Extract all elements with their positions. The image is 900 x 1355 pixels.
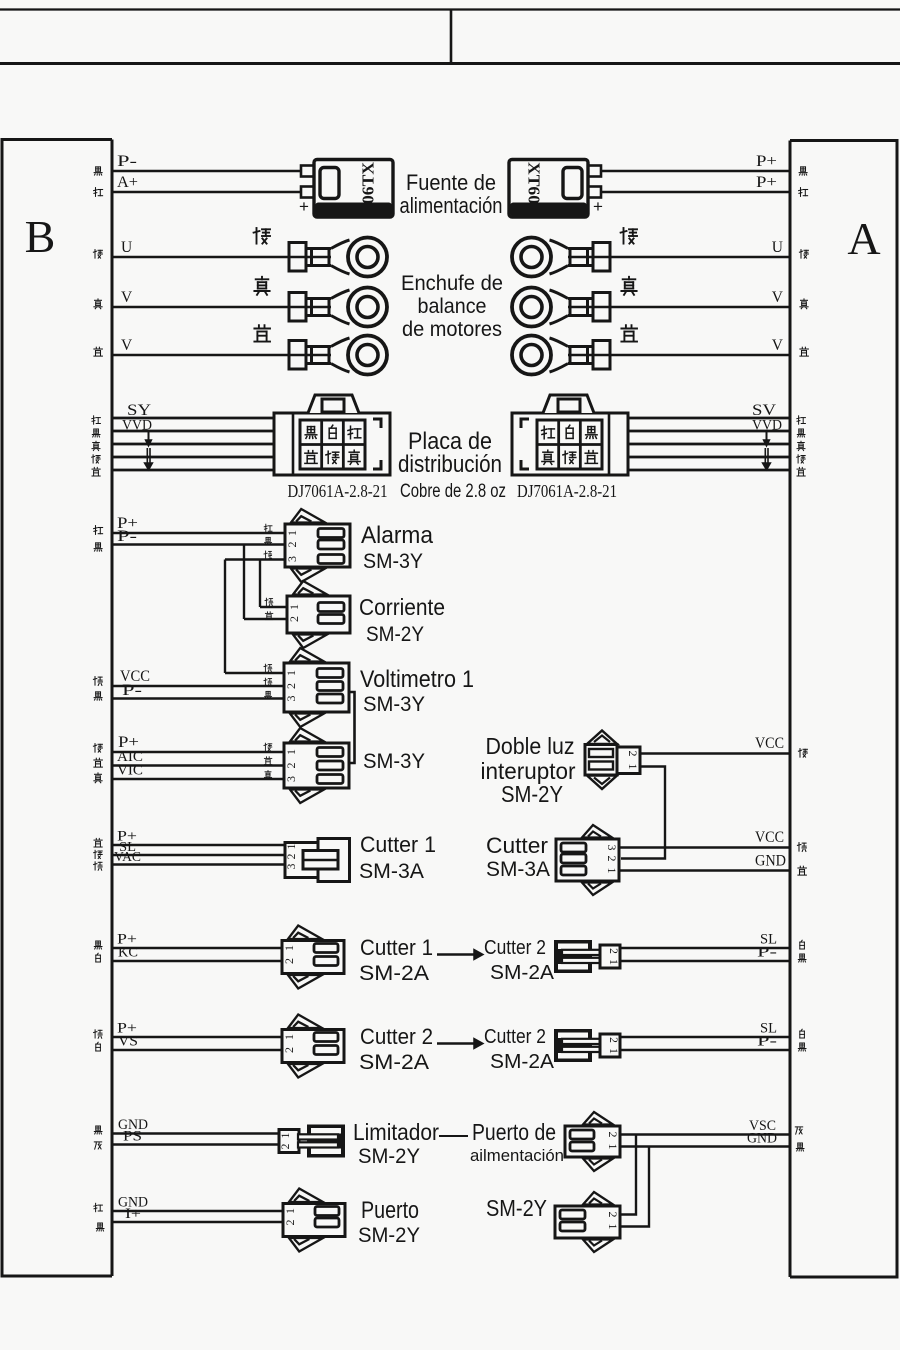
svg-text:SM-2Y: SM-2Y <box>486 1195 547 1221</box>
connector shell <box>554 940 592 973</box>
wire GND B to Limitador pin1 <box>112 1132 279 1134</box>
wire color column (B edge) <box>92 416 101 424</box>
ring terminal ring hole <box>357 297 378 318</box>
svg-text:Alarma: Alarma <box>361 522 434 549</box>
ring terminal ring hole <box>521 297 542 318</box>
svg-text:P-: P- <box>117 528 137 545</box>
svg-text:Cutter: Cutter <box>486 833 548 858</box>
wire P- to A <box>620 960 790 962</box>
svg-text:PS: PS <box>123 1129 142 1145</box>
connector tongue (Cutter1 SM-3A) <box>303 851 338 870</box>
title block divider vertical <box>450 10 453 64</box>
ring terminal neck <box>568 297 593 300</box>
svg-text:3: 3 <box>284 696 298 702</box>
ring terminal wire seam <box>289 306 331 308</box>
wire color label black (B side) <box>94 167 102 175</box>
wire color labels at Corriente pins <box>265 598 273 606</box>
svg-text:GND: GND <box>755 853 786 870</box>
XT60 connector body <box>509 160 588 218</box>
pin slots <box>570 1130 594 1139</box>
svg-text:1: 1 <box>607 959 619 965</box>
harness board A box <box>790 141 897 1278</box>
wire GND Puerto to A <box>620 1145 790 1147</box>
ring terminal wire seam <box>568 256 610 258</box>
svg-text:SM-2A: SM-2A <box>490 962 555 984</box>
harness board B box <box>2 140 112 1277</box>
wire color label orange (B edge) <box>93 677 102 686</box>
svg-text:2: 2 <box>286 853 298 859</box>
wire color labels (A edge) <box>800 1029 805 1038</box>
wire color label black (A edge) <box>796 1143 804 1151</box>
svg-text:3: 3 <box>605 845 619 851</box>
wire V motor phase (A side) <box>610 354 790 356</box>
svg-text:VVD: VVD <box>122 418 152 434</box>
svg-text:SM-3Y: SM-3Y <box>363 693 425 716</box>
connector body <box>284 743 349 788</box>
svg-text:SM-3Y: SM-3Y <box>363 750 425 773</box>
wire A+ (red) B to XT60-B <box>112 191 302 193</box>
ring terminal ring <box>512 336 551 375</box>
svg-text:1: 1 <box>605 868 619 874</box>
connector body <box>282 1030 344 1063</box>
svg-text:Cobre de 2.8 oz: Cobre de 2.8 oz <box>400 481 506 502</box>
wire color label green (A edge) <box>798 749 807 758</box>
pin slots <box>314 944 338 953</box>
svg-text:2: 2 <box>284 763 298 769</box>
connector latch wing top <box>288 1015 322 1029</box>
wire VS B to Cutter 2 pin2 <box>112 1049 282 1051</box>
pin number box <box>600 1034 620 1057</box>
ring terminal neck <box>568 247 593 250</box>
wire color label (B edge) <box>93 250 102 259</box>
wire net arrow 2 (B side) <box>146 448 148 464</box>
connector latch wing top <box>290 648 324 662</box>
wire color label red (A side) <box>799 188 808 197</box>
wire color label red (B side) <box>94 188 103 197</box>
svg-text:ailmentación: ailmentación <box>470 1146 564 1165</box>
connector latch wing bottom <box>293 635 327 649</box>
ring terminal ring <box>348 288 387 327</box>
svg-text:1: 1 <box>606 1144 620 1150</box>
pin slots <box>317 748 343 757</box>
wire color column (A edge) <box>797 416 806 424</box>
svg-text:2: 2 <box>607 948 619 954</box>
ring terminal neck <box>306 297 331 300</box>
wire color labels (B edge) <box>94 941 102 949</box>
connector latch wing bottom <box>288 975 322 989</box>
wire color label black (B edge) <box>94 692 102 700</box>
connector latch wing bottom <box>583 1159 613 1172</box>
pin slots <box>315 1207 339 1216</box>
svg-text:B: B <box>25 211 56 262</box>
wire V motor phase (B side) <box>112 306 289 308</box>
svg-text:A: A <box>847 213 880 264</box>
wire color label black (B edge) <box>94 543 102 551</box>
distribution connector lock bracket <box>521 419 529 469</box>
connector latch wing bottom <box>291 569 325 583</box>
svg-text:1: 1 <box>287 604 301 610</box>
distribution connector DJ7061A body <box>274 413 390 475</box>
wire net arrow 1 (A side) <box>766 432 768 441</box>
connector latch wing bottom <box>290 790 324 804</box>
pin blades <box>562 1039 604 1044</box>
ring terminal ring <box>512 238 551 277</box>
connector latch wing top <box>289 1189 323 1203</box>
svg-text:1: 1 <box>285 530 299 536</box>
svg-text:VCC: VCC <box>755 735 784 752</box>
pin slots <box>318 529 344 538</box>
connector latch wing bottom <box>583 1240 613 1253</box>
XT60 black base band <box>315 203 392 217</box>
distribution connector DJ7061A body <box>512 413 628 475</box>
ring terminal crimp barrel <box>289 243 306 272</box>
distribution connector 2x3 terminal grid <box>300 420 365 469</box>
ring terminal wire seam <box>289 354 331 356</box>
wire VCC Doble luz to A <box>640 752 790 754</box>
svg-text:P+: P+ <box>756 174 777 191</box>
ring terminal ring hole <box>521 345 542 366</box>
connector shell <box>307 1125 345 1158</box>
connector body <box>285 524 350 567</box>
wire PS B to Limitador pin2 <box>112 1143 279 1145</box>
svg-text:Enchufe de: Enchufe de <box>401 272 503 295</box>
wire bundle B to distribution connector (5 wires) <box>112 417 274 420</box>
svg-text:1: 1 <box>282 1034 296 1040</box>
title block bottom border line <box>0 62 900 65</box>
pin number box <box>279 1130 299 1153</box>
wire color labels (B edge) <box>94 1030 103 1038</box>
connector latch wing top <box>582 825 612 838</box>
svg-text:SM-3A: SM-3A <box>486 858 550 881</box>
Alarma pin3 stub wire <box>225 558 285 560</box>
ring terminal neck <box>568 345 593 348</box>
wire color labels at Alarma pins <box>264 524 272 532</box>
svg-text:3: 3 <box>285 556 299 562</box>
wire color label green (B edge) <box>93 744 102 753</box>
XT60 terminal pins <box>301 166 314 177</box>
svg-text:P-: P- <box>117 153 137 170</box>
wire color label (B edge) <box>94 299 102 309</box>
connector shell <box>554 1029 592 1062</box>
distribution connector lock bracket <box>373 419 381 469</box>
pin slots <box>318 603 344 612</box>
svg-text:P-: P- <box>757 945 777 961</box>
ring terminal ring hole <box>521 247 542 268</box>
svg-text:3: 3 <box>286 863 298 869</box>
svg-text:SV: SV <box>752 402 777 419</box>
svg-text:1: 1 <box>606 1224 620 1230</box>
wire P- B to Voltimetro pin3 <box>112 697 284 699</box>
ring terminal ring hole <box>357 247 378 268</box>
svg-text:2: 2 <box>283 1220 297 1226</box>
svg-text:V: V <box>121 337 133 354</box>
svg-text:2: 2 <box>280 1143 292 1149</box>
pin slots <box>560 1210 585 1219</box>
svg-text:SM-2Y: SM-2Y <box>501 781 563 807</box>
wire U motor phase (B side) <box>112 256 289 258</box>
svg-text:Cutter 2: Cutter 2 <box>484 1026 546 1048</box>
ring terminal wire seam <box>568 306 610 308</box>
wire P- to A <box>620 1049 790 1051</box>
wire SL B to Cutter1 pin2 <box>112 854 288 856</box>
pin slots <box>317 669 343 678</box>
wire color label gray (A edge) <box>795 1127 802 1134</box>
svg-text:Corriente: Corriente <box>359 594 445 620</box>
svg-text:SM-3A: SM-3A <box>359 860 424 883</box>
link line Limitador to Puerto <box>439 1135 468 1137</box>
terminal color labels <box>542 426 555 439</box>
wire color label orange (A edge) <box>797 843 806 852</box>
junction bus vertical pin3 to Corriente pin1 <box>259 560 261 608</box>
ring terminal ring <box>348 336 387 375</box>
svg-text:Puerto: Puerto <box>361 1197 419 1224</box>
connector body <box>284 663 349 712</box>
wire SL to A <box>620 947 790 949</box>
svg-text:P-: P- <box>122 682 142 699</box>
svg-text:SM-2A: SM-2A <box>359 962 429 985</box>
wire P+ (black) XT60-A to A <box>601 170 790 172</box>
distribution connector top latch <box>543 395 594 413</box>
svg-text:P+: P+ <box>756 153 777 170</box>
svg-text:SM-2A: SM-2A <box>490 1051 555 1073</box>
wire I+ B to Puerto pin2 <box>112 1221 283 1223</box>
connector Cutter 1 SM-3A female <box>318 839 350 882</box>
ring terminal crimp barrel <box>289 293 306 322</box>
svg-text:Cutter 2: Cutter 2 <box>360 1024 433 1049</box>
wire color label (large, B side) <box>254 277 269 295</box>
title block top border line <box>0 8 900 10</box>
svg-text:SM-2Y: SM-2Y <box>366 623 424 646</box>
wire color label yellow (B edge) <box>94 773 102 783</box>
wire color label green (B edge) <box>94 850 103 858</box>
XT60 terminal pins <box>588 166 601 177</box>
svg-text:Limitador: Limitador <box>353 1119 439 1145</box>
wire color label red (B edge) <box>94 526 103 535</box>
connector latch wing bottom <box>289 1238 323 1252</box>
connector Doble luz SM-2Y male <box>587 731 617 745</box>
svg-text:1: 1 <box>284 670 298 676</box>
svg-text:V: V <box>772 337 784 354</box>
svg-text:VCC: VCC <box>755 829 784 846</box>
svg-text:3: 3 <box>284 776 298 782</box>
wire P+ B to SM-3Y pin1 <box>112 751 284 753</box>
wire color label black (A side) <box>799 167 807 175</box>
XT60 pin cavity <box>320 168 339 199</box>
ring terminal crimp barrel <box>593 243 610 272</box>
svg-text:+: + <box>299 197 309 216</box>
wire color label (B edge) <box>94 347 103 356</box>
svg-text:+: + <box>593 197 603 216</box>
svg-text:Fuente de: Fuente de <box>406 170 496 195</box>
wire V motor phase (B side) <box>112 354 289 356</box>
ring terminal neck <box>306 345 331 348</box>
wire color label (large, A side) <box>621 228 637 244</box>
svg-text:DJ7061A-2.8-21: DJ7061A-2.8-21 <box>517 481 617 501</box>
ring terminal wire seam <box>568 354 610 356</box>
svg-text:Voltimetro 1: Voltimetro 1 <box>360 666 474 693</box>
svg-text:2: 2 <box>287 616 301 622</box>
connector latch wing bottom <box>290 714 324 728</box>
wire P+ B to Cutter 2 pin1 <box>112 1036 282 1038</box>
svg-text:2: 2 <box>606 1212 620 1218</box>
svg-text:2: 2 <box>626 751 640 757</box>
wire color label (large, A side) <box>621 277 636 295</box>
svg-text:Cutter 1: Cutter 1 <box>360 935 433 960</box>
wire U motor phase (A side) <box>610 256 790 258</box>
svg-text:DJ7061A-2.8-21: DJ7061A-2.8-21 <box>288 481 388 501</box>
svg-text:de motores: de motores <box>402 318 502 341</box>
wire VIC B to SM-3Y pin3 <box>112 778 284 780</box>
svg-text:1: 1 <box>280 1132 292 1138</box>
svg-text:XT60: XT60 <box>525 162 544 204</box>
ring terminal wire seam <box>289 256 331 258</box>
svg-text:1: 1 <box>626 764 640 770</box>
svg-text:1: 1 <box>282 945 296 951</box>
wire V motor phase (A side) <box>610 306 790 308</box>
svg-text:VAC: VAC <box>114 849 141 864</box>
wire color label red (B edge) <box>94 1203 103 1211</box>
svg-text:distribución: distribución <box>398 451 502 478</box>
connector latch wing top <box>583 1192 613 1205</box>
svg-text:2: 2 <box>284 683 298 689</box>
wire net arrow 2 (A side) <box>764 448 766 464</box>
wire P- B to Alarma pin2 <box>112 543 285 545</box>
wire SL to A <box>620 1036 790 1038</box>
wire color label gray (B edge) <box>94 1142 101 1149</box>
ring terminal neck <box>306 247 331 250</box>
wire AIC B to SM-3Y pin2 <box>112 764 284 766</box>
connector body <box>282 941 344 974</box>
svg-text:2: 2 <box>282 1047 296 1053</box>
ring terminal crimp barrel <box>593 341 610 370</box>
wire VAC B to Cutter1 pin3 <box>112 863 288 865</box>
ring terminal crimp barrel <box>289 341 306 370</box>
wire P+ B to Cutter1 pin1 <box>112 844 288 846</box>
wire VSC Puerto to A <box>620 1133 790 1135</box>
wire color label blue (A edge) <box>798 866 807 875</box>
connector body <box>556 839 619 881</box>
svg-text:VS: VS <box>118 1034 138 1050</box>
wire color label (A edge) <box>799 250 808 259</box>
wire color labels (A edge) <box>800 940 805 949</box>
XT60 black base band <box>510 203 587 217</box>
svg-text:Cutter 1: Cutter 1 <box>360 832 436 857</box>
wire bundle distribution connector to A (5 wires) <box>628 417 790 420</box>
wire KC B to Cutter 1 pin2 <box>112 960 282 962</box>
svg-text:Cutter 2: Cutter 2 <box>484 937 546 959</box>
svg-text:SM-2Y: SM-2Y <box>358 1145 420 1168</box>
wire VCC B to Voltimetro pin2 <box>112 685 284 687</box>
svg-text:SM-3Y: SM-3Y <box>363 550 423 573</box>
svg-text:1: 1 <box>283 1208 297 1214</box>
XT60 pin cavity <box>563 168 582 199</box>
svg-text:SY: SY <box>127 402 152 419</box>
svg-text:2: 2 <box>605 856 619 862</box>
branch vertical Puerto pin1 to SM-2Y pin1 <box>620 1147 649 1227</box>
svg-text:VIC: VIC <box>117 763 143 779</box>
signal flow arrow <box>437 1042 474 1045</box>
wire color label blue (B edge) <box>94 838 102 847</box>
connector latch wing top <box>583 1112 613 1125</box>
pin number box <box>600 945 620 968</box>
distribution connector wire-side divider <box>608 413 611 475</box>
jumper bracket Voltimetro to SM-3Y <box>349 692 355 763</box>
ring terminal ring <box>512 288 551 327</box>
XT60 connector body <box>314 160 393 218</box>
wire color labels at SM-3Y pins <box>264 743 272 750</box>
svg-text:KC: KC <box>118 945 138 961</box>
connector body <box>555 1206 620 1238</box>
signal flow arrow <box>437 953 474 956</box>
svg-text:Doble luz: Doble luz <box>486 733 575 759</box>
wire color label (large, B side) <box>254 325 270 341</box>
connector latch wing bottom <box>288 1064 322 1078</box>
svg-text:2: 2 <box>607 1037 619 1043</box>
svg-text:SM-2A: SM-2A <box>359 1051 429 1074</box>
wire P+ B to Cutter 1 pin1 <box>112 947 282 949</box>
connector latch wing top <box>291 509 325 523</box>
svg-text:2: 2 <box>285 542 299 548</box>
wire GND Cutter SM-3A to A <box>619 869 790 871</box>
wire color label (large, B side) <box>254 228 270 244</box>
svg-text:SM-2Y: SM-2Y <box>358 1224 420 1247</box>
svg-text:U: U <box>121 239 132 256</box>
svg-text:Puerto de: Puerto de <box>472 1119 556 1145</box>
ring terminal ring <box>348 238 387 277</box>
svg-text:2: 2 <box>606 1132 620 1138</box>
svg-text:U: U <box>772 239 783 256</box>
svg-text:1: 1 <box>286 843 298 849</box>
junction bus vertical P- to Corriente pin2 <box>243 545 245 620</box>
branch vertical Puerto pin2 to SM-2Y pin2 <box>620 1135 636 1215</box>
svg-text:06TX: 06TX <box>359 161 378 204</box>
connector body <box>287 596 350 633</box>
distribution connector wire-side divider <box>292 413 295 475</box>
wire Doble luz pin1 to Cutter SM-3A pin2 (elbow) <box>621 767 665 859</box>
wire GND B to Puerto pin1 <box>112 1210 283 1212</box>
connector latch wing top <box>293 581 327 595</box>
connector latch wing top <box>290 728 324 742</box>
wire color labels at Voltimetro pins <box>264 664 272 672</box>
wire color label (A edge) <box>800 347 809 356</box>
pin slots <box>561 843 586 852</box>
svg-text:1: 1 <box>607 1048 619 1054</box>
connector body <box>283 1204 345 1237</box>
wire color label (A edge) <box>800 299 808 309</box>
wire net arrow 1 (B side) <box>148 432 150 441</box>
wire P- (black) B to XT60-B <box>112 170 302 172</box>
svg-text:V: V <box>772 289 784 306</box>
connector body <box>565 1126 620 1157</box>
wire color label black (B edge) <box>96 1223 104 1231</box>
svg-text:A+: A+ <box>117 174 138 191</box>
wire color label (large, A side) <box>621 325 637 341</box>
wire P+ (red) XT60-A to A <box>601 191 790 193</box>
connector latch wing top <box>288 926 322 940</box>
svg-text:VVD: VVD <box>752 418 782 434</box>
svg-text:V: V <box>121 289 133 306</box>
svg-text:I+: I+ <box>125 1206 141 1222</box>
junction bus vertical pin3 to Voltimetro pin1 <box>224 560 226 674</box>
connector latch wing bottom <box>582 883 612 896</box>
wire color label orange (B edge) <box>94 862 103 870</box>
svg-text:2: 2 <box>282 958 296 964</box>
svg-text:balance: balance <box>418 295 487 318</box>
svg-text:alimentación: alimentación <box>400 193 503 218</box>
wire VCC Cutter SM-3A to A <box>619 846 790 848</box>
distribution connector 2x3 terminal grid <box>537 420 602 469</box>
ring terminal crimp barrel <box>593 293 610 322</box>
